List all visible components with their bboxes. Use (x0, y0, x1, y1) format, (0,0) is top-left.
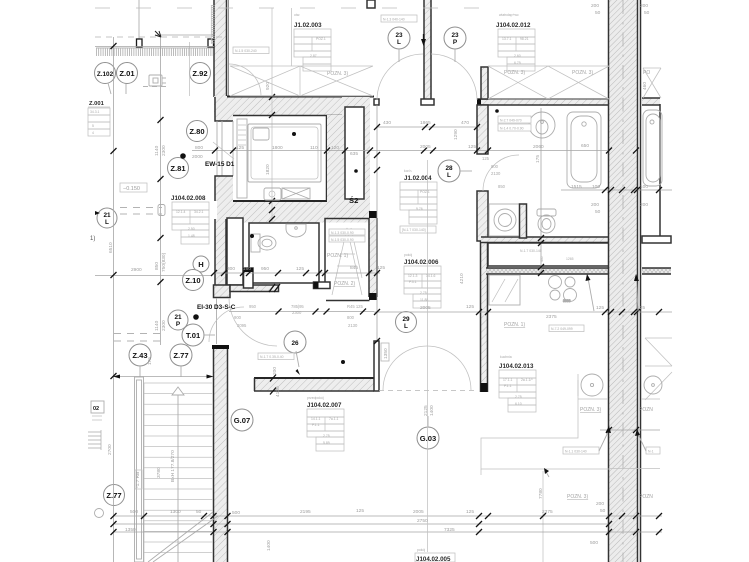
svg-text:pokój: pokój (404, 253, 412, 257)
dim line: row y190 (561, 189, 672, 191)
dim line: vertical axis x113 (113, 37, 115, 562)
svg-text:POZN. 1): POZN. 1) (327, 253, 348, 259)
svg-text:2095: 2095 (237, 323, 247, 328)
WC toilet (251, 234, 276, 252)
svg-text:N-2.7 049-070: N-2.7 049-070 (500, 119, 522, 123)
wall: hatched band west of kitchen (room divider) (254, 375, 374, 395)
svg-text:500: 500 (232, 510, 240, 516)
dim chain x272 (269, 8, 292, 223)
svg-text:1350: 1350 (383, 348, 389, 359)
svg-text:9.76: 9.76 (416, 207, 423, 211)
svg-text:1265: 1265 (566, 257, 574, 261)
svg-text:G.07: G.07 (234, 416, 250, 425)
door tag circle 23L (388, 27, 410, 62)
svg-text:Z.80: Z.80 (189, 127, 204, 136)
room table J104.02.013 (499, 355, 536, 412)
svg-text:635: 635 (350, 151, 358, 157)
door 23L arc (377, 54, 423, 100)
wardrobe EW-15 in bedroom (237, 119, 247, 198)
dashes door 21L (120, 208, 162, 215)
svg-text:3688: 3688 (563, 299, 571, 303)
svg-text:−0.150: −0.150 (123, 186, 140, 192)
door tag circle 21L (95, 208, 117, 228)
svg-text:17.1.1: 17.1.1 (503, 378, 513, 382)
door tag circle 29L (396, 312, 417, 333)
wardrobe niche lines EW-15 (217, 121, 233, 176)
svg-text:2a.1.1/*: 2a.1.1/* (521, 378, 533, 382)
door arc upper-left room (229, 64, 261, 96)
svg-text:2.87: 2.87 (310, 54, 317, 58)
svg-text:POZN: POZN (639, 407, 653, 413)
svg-text:125: 125 (356, 508, 364, 514)
level label -0.150 (120, 183, 147, 192)
svg-text:12.1.4: 12.1.4 (176, 210, 186, 214)
svg-text:N-1.1 030-140: N-1.1 030-140 (565, 450, 587, 454)
wall: thin wall between doors 23 (421, 0, 434, 105)
svg-text:T.01: T.01 (186, 331, 201, 340)
svg-text:650: 650 (581, 143, 589, 149)
svg-text:50: 50 (644, 10, 650, 16)
svg-text:2130: 2130 (491, 171, 501, 176)
svg-text:Z.10: Z.10 (185, 276, 200, 285)
svg-text:26: 26 (291, 340, 299, 347)
room tag circle Z.92 (190, 63, 211, 84)
svg-text:N-1.4 0.70-0.90: N-1.4 0.70-0.90 (500, 127, 524, 131)
room tag circle Z.43 (129, 344, 151, 377)
svg-text:1865: 1865 (420, 120, 431, 126)
svg-text:1400: 1400 (429, 405, 435, 416)
wall: band between bathroom and small corridor (481, 237, 609, 243)
svg-text:2300: 2300 (292, 310, 302, 315)
svg-text:6510: 6510 (108, 242, 114, 253)
svg-text:4130: 4130 (275, 386, 281, 397)
dashes door 21P (114, 334, 162, 342)
svg-text:N-1.3 040-140: N-1.3 040-140 (383, 18, 405, 22)
svg-text:845: 845 (350, 265, 358, 271)
svg-text:13.7.1: 13.7.1 (502, 37, 512, 41)
leader arrows kitchen (586, 274, 640, 311)
svg-text:G.03: G.03 (420, 434, 436, 443)
side table below bed (264, 188, 281, 200)
dim vertical x377 (376, 105, 378, 341)
dim vertical x427 (427, 160, 429, 552)
wall: kitchen-corridor left wall (481, 241, 488, 392)
room table J104.02.006 (404, 253, 441, 308)
interior wall in bathroom (520, 204, 527, 238)
right room bathtub (643, 110, 662, 186)
svg-text:Z.81: Z.81 (170, 164, 186, 173)
svg-text:4: 4 (92, 131, 94, 135)
svg-text:P.3.1: P.3.1 (409, 280, 417, 284)
plot line with arrows (95, 46, 214, 48)
bed in bedroom Z80 (248, 124, 321, 182)
svg-text:430: 430 (383, 120, 391, 126)
wall: left exterior wall upper (214, 0, 228, 97)
svg-text:2375: 2375 (546, 314, 557, 320)
dim texts doors mid (234, 156, 506, 328)
svg-text:N-1: N-1 (648, 450, 654, 454)
svg-text:850: 850 (498, 184, 506, 189)
svg-text:przedpokój: przedpokój (307, 396, 324, 400)
top-left dim line with arrow (157, 34, 213, 36)
svg-text:POZN. 3): POZN. 3) (327, 71, 348, 77)
svg-text:7a.1.1: 7a.1.1 (329, 417, 339, 421)
wall: right room mid wall (642, 236, 671, 243)
svg-text:POZ.1: POZ.1 (316, 37, 326, 41)
svg-text:N-1.3 030-0.90: N-1.3 030-0.90 (331, 231, 354, 235)
room tag circle Z.102 (95, 63, 116, 95)
svg-text:1400: 1400 (266, 540, 272, 551)
comb ticks lower left (88, 430, 101, 450)
svg-text:100: 100 (592, 184, 600, 190)
svg-text:L: L (447, 172, 451, 179)
svg-text:N-1.5 030-240: N-1.5 030-240 (235, 49, 257, 53)
svg-text:5.89: 5.89 (323, 441, 330, 445)
svg-text:850: 850 (154, 262, 160, 270)
floor truss upper-right room (488, 66, 609, 99)
dim texts row y190 (571, 184, 648, 190)
dim line: stairs top y376 (113, 375, 214, 379)
svg-text:N-1.5 030-0.90: N-1.5 030-0.90 (331, 238, 354, 242)
right kitchen burner (644, 376, 662, 394)
door T01 arc right (229, 298, 277, 346)
wall: wiatrolap left wall piece (481, 67, 488, 99)
svg-text:Z.001: Z.001 (89, 101, 105, 107)
dim line: left row y275 (95, 275, 211, 277)
kitchen big burner left (578, 374, 660, 399)
floor truss upper-left room (230, 66, 373, 96)
svg-text:800: 800 (347, 315, 355, 320)
svg-text:POZN. 3): POZN. 3) (580, 407, 601, 413)
truss area right mid (645, 338, 672, 400)
svg-text:2.75: 2.75 (323, 434, 330, 438)
svg-text:kuchnia: kuchnia (500, 355, 512, 359)
dim line: row y312 (374, 311, 672, 313)
svg-text:200: 200 (591, 202, 599, 208)
svg-text:500: 500 (590, 540, 598, 546)
leader arrow counter (544, 468, 549, 477)
svg-text:5: 5 (92, 124, 94, 128)
svg-text:3780: 3780 (156, 467, 162, 478)
svg-text:7780: 7780 (538, 488, 544, 499)
table Z.001 top-left (88, 101, 110, 136)
svg-text:200: 200 (640, 3, 648, 9)
svg-text:L: L (105, 219, 109, 226)
room tag circle G.03 (417, 416, 439, 449)
dim line: bedroom row y150 (192, 150, 609, 152)
wall: room Z.10 right wall (369, 211, 377, 300)
room table J104.02.012 (496, 13, 535, 71)
insulation strip left wall (212, 6, 215, 43)
svg-text:H: H (198, 260, 203, 269)
svg-text:J104.02.012: J104.02.012 (496, 22, 531, 29)
svg-text:50: 50 (600, 508, 606, 514)
svg-text:125: 125 (482, 156, 490, 161)
WC sink (286, 224, 306, 237)
svg-text:BxH 177.8/270: BxH 177.8/270 (170, 450, 176, 482)
svg-text:200: 200 (596, 501, 604, 507)
svg-text:1800: 1800 (272, 145, 283, 151)
svg-text:1.48: 1.48 (188, 234, 195, 238)
svg-text:POZN. 3): POZN. 3) (567, 494, 588, 500)
svg-text:300: 300 (227, 266, 235, 272)
svg-text:1290: 1290 (453, 129, 459, 140)
drying rack room Z10 (332, 228, 362, 295)
svg-text:otw.: otw. (294, 13, 300, 17)
svg-text:4210: 4210 (459, 273, 465, 284)
small fixture symbol near Z01 (149, 75, 166, 86)
dim texts corridor row (131, 265, 385, 273)
wall: corridor band below bedroom (217, 201, 370, 223)
svg-text:J1.02.003: J1.02.003 (294, 22, 322, 29)
svg-text:110: 110 (310, 145, 318, 151)
svg-text:2125: 2125 (423, 405, 429, 416)
svg-text:Z.77: Z.77 (106, 491, 121, 500)
room tag circle Z.77 (170, 344, 192, 377)
svg-text:950: 950 (249, 304, 257, 309)
room tag circle Z.77 lower (104, 485, 125, 506)
leader Z.80 to wall (213, 142, 234, 159)
svg-text:2.75: 2.75 (420, 291, 427, 295)
svg-text:PO: PO (643, 70, 650, 76)
wall: piece right of door EI-30 (314, 282, 331, 289)
dimension tick marks (111, 43, 663, 535)
svg-text:2750: 2750 (417, 518, 428, 524)
chimney marker top (367, 0, 375, 8)
room table J104.02.007 (307, 396, 344, 451)
wall: bathroom left wall pieces (477, 105, 488, 241)
toilet mid bathroom (537, 209, 556, 233)
dim texts row y122 (383, 120, 469, 126)
wall: T01 corner block (214, 284, 281, 344)
svg-text:2005: 2005 (420, 305, 431, 311)
svg-text:920: 920 (265, 82, 271, 90)
terrain comb hatch (96, 48, 213, 56)
wall: right room top wall (642, 98, 660, 243)
svg-text:J104.02.013: J104.02.013 (499, 363, 534, 370)
wall: corridor top wall right of door 23 (374, 99, 609, 105)
svg-text:175: 175 (535, 155, 541, 163)
leader lines to wall bottom right (599, 426, 646, 451)
svg-text:23: 23 (451, 32, 459, 39)
svg-text:EW-15 D1: EW-15 D1 (205, 161, 235, 168)
svg-text:P.1.1: P.1.1 (312, 423, 320, 427)
svg-text:2130: 2130 (348, 323, 358, 328)
svg-text:L: L (397, 39, 401, 46)
dim line: bottom y516 (113, 515, 662, 517)
svg-text:125: 125 (296, 266, 304, 272)
svg-text:2195: 2195 (300, 509, 311, 515)
svg-text:[N-1.7 030-140]: [N-1.7 030-140] (402, 228, 426, 232)
svg-text:N-1.7 030-140: N-1.7 030-140 (520, 249, 542, 253)
svg-text:POZN. 2): POZN. 2) (334, 281, 355, 287)
dim line: corridor row y273 (214, 272, 380, 274)
svg-text:21: 21 (103, 212, 111, 219)
room table J104.02.008 (171, 195, 209, 244)
svg-text:1140: 1140 (154, 320, 160, 331)
kitchen cabinet with diagonal (489, 275, 520, 305)
labels inside corridor G.04 (520, 249, 574, 261)
small boxed labels (233, 15, 660, 454)
handrail label box (135, 470, 142, 489)
svg-text:125: 125 (466, 304, 474, 310)
svg-text:02: 02 (93, 406, 99, 412)
black dots (180, 153, 186, 159)
svg-text:23: 23 (395, 32, 403, 39)
door 23P arc (431, 54, 477, 100)
svg-text:J104.02.007: J104.02.007 (307, 402, 342, 409)
room table J1.02.003 (294, 13, 331, 71)
svg-text:34.3.1: 34.3.1 (90, 110, 100, 114)
kitchen counter bottom G03 (481, 380, 609, 562)
dim line: right y430 (600, 429, 660, 431)
svg-text:Z.01: Z.01 (119, 69, 135, 78)
svg-text:P: P (176, 321, 181, 328)
door tag circle 21P (168, 310, 188, 330)
stairs direction line (172, 387, 184, 562)
wall: bedroom left wall stub bottom (215, 176, 233, 201)
wall: crosshatch band above kitchen (486, 268, 611, 274)
wall: WC pillar left (227, 218, 243, 285)
section line top with window block (137, 0, 214, 47)
vent line x541 (540, 108, 542, 274)
svg-text:470: 470 (461, 120, 469, 126)
svg-text:28: 28 (445, 165, 453, 172)
door tag circle 26 (284, 331, 306, 375)
svg-text:POZ.1: POZ.1 (420, 190, 430, 194)
svg-text:2.50: 2.50 (188, 227, 195, 231)
svg-text:50: 50 (196, 509, 202, 515)
door 28L arc (483, 155, 519, 191)
svg-text:P.1.1: P.1.1 (504, 384, 512, 388)
svg-text:kor.h.: kor.h. (404, 169, 412, 173)
svg-text:2375: 2375 (542, 509, 553, 515)
svg-text:Z.77: Z.77 (173, 351, 188, 360)
svg-text:125: 125 (377, 265, 385, 271)
dim texts wall u-values (591, 3, 650, 215)
svg-text:1350: 1350 (125, 527, 136, 533)
svg-text:1): 1) (90, 236, 95, 242)
room table J104.02.005 (bottom edge) (415, 548, 455, 562)
svg-text:J104.02.008: J104.02.008 (171, 195, 206, 202)
svg-text:6.79: 6.79 (514, 61, 521, 65)
svg-text:14.1.1: 14.1.1 (311, 417, 321, 421)
dim texts bottom rows (125, 501, 606, 546)
kitchen hob circles (549, 276, 577, 304)
svg-text:Z.43: Z.43 (132, 351, 147, 360)
svg-text:11.88: 11.88 (420, 298, 428, 302)
door tag circle 28L (438, 160, 472, 182)
svg-text:785|95: 785|95 (291, 304, 304, 309)
dashed boundary line (95, 36, 227, 38)
arrow on wall D (421, 34, 426, 46)
svg-text:2900: 2900 (131, 267, 142, 273)
svg-text:460: 460 (642, 82, 648, 90)
svg-text:2060: 2060 (533, 144, 544, 150)
dim texts row y312 (420, 304, 645, 320)
svg-text:125: 125 (468, 144, 476, 150)
svg-text:2.60: 2.60 (514, 54, 521, 58)
dim line: door row y127 (376, 126, 480, 128)
POZN notes (327, 253, 653, 500)
svg-text:POZN. 3): POZN. 3) (572, 70, 593, 76)
svg-text:Z.102: Z.102 (97, 71, 114, 78)
svg-text:2300: 2300 (161, 320, 167, 331)
stairs break line (148, 512, 218, 562)
svg-text:800: 800 (195, 145, 203, 151)
room tag circle G.07 (231, 409, 253, 431)
door tag circle 23P (444, 27, 466, 62)
door 21 leaf symbol (158, 205, 165, 216)
svg-text:P: P (453, 39, 458, 46)
wall: main party wall right (full height) (608, 0, 638, 562)
wall: right crosshatch band (642, 268, 671, 274)
wall: right rooms inner edge (640, 0, 642, 562)
wall: horizontal band above bedroom (214, 96, 374, 115)
tag circle H (193, 256, 209, 272)
stairs treads (144, 383, 213, 562)
svg-text:2700: 2700 (107, 444, 113, 455)
svg-text:L: L (404, 323, 408, 330)
extension line x189 (189, 42, 191, 96)
svg-text:160: 160 (243, 266, 251, 272)
washing machine (489, 204, 521, 236)
dim line: bottom y532 (113, 531, 662, 533)
label box 02 with rows (91, 401, 104, 420)
svg-text:120: 120 (331, 145, 339, 151)
wall: shaft S2 column (327, 97, 370, 210)
svg-text:900: 900 (234, 315, 242, 320)
svg-text:Ś2: Ś2 (349, 196, 358, 205)
svg-text:50: 50 (595, 10, 601, 16)
room tag circle Z.81 (168, 158, 189, 179)
svg-text:N-7.2 049-099: N-7.2 049-099 (551, 327, 573, 331)
room: small corridor G.04 (488, 243, 609, 266)
svg-text:pokój: pokój (417, 548, 425, 552)
svg-text:200: 200 (272, 367, 278, 375)
rotated dim texts (107, 82, 648, 551)
svg-text:12.1.3: 12.1.3 (408, 274, 418, 278)
svg-text:1140: 1140 (154, 145, 160, 156)
wall: door 29 jamb (374, 341, 389, 391)
svg-text:1820: 1820 (265, 164, 271, 175)
door T01 arc left (209, 307, 244, 342)
svg-text:2.75: 2.75 (515, 395, 522, 399)
dim line: door row y311 (229, 309, 374, 315)
svg-text:100: 100 (640, 184, 648, 190)
svg-text:21: 21 (174, 314, 182, 321)
svg-text:1515: 1515 (571, 184, 582, 190)
svg-text:N-1.7 0.35-0.40: N-1.7 0.35-0.40 (260, 355, 284, 359)
room tag circle T.01 (182, 324, 215, 346)
door 29 arcs (383, 346, 471, 390)
dim texts row y150 (192, 143, 589, 160)
svg-text:500: 500 (130, 509, 138, 515)
stair handrail (135, 377, 144, 562)
svg-text:200: 200 (640, 202, 648, 208)
svg-text:J104.02.005: J104.02.005 (416, 556, 451, 562)
svg-text:125: 125 (236, 145, 244, 151)
svg-text:R45 125: R45 125 (347, 304, 364, 309)
wall: WC door jamb piece (244, 268, 254, 288)
svg-text:6.10: 6.10 (515, 402, 522, 406)
svg-text:175: 175 (147, 357, 153, 365)
svg-text:J104.02.006: J104.02.006 (404, 259, 439, 266)
svg-text:2005: 2005 (413, 509, 424, 515)
dim line: right y468 (609, 468, 660, 470)
bench with X below bed (282, 188, 310, 199)
bedroom inner edges (233, 115, 345, 201)
